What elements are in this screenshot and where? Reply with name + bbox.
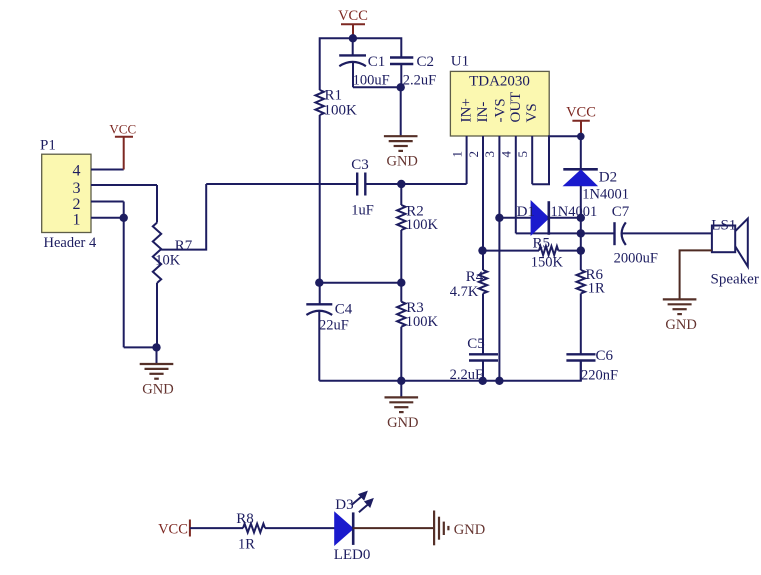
power VCC at U1 <box>580 121 582 137</box>
svg-text:D3: D3 <box>335 497 353 513</box>
resistor R8 1R <box>243 524 265 533</box>
svg-text:C7: C7 <box>612 204 630 220</box>
svg-text:2: 2 <box>466 151 481 158</box>
speaker LS1 <box>712 226 735 253</box>
LED D3 LED0 <box>335 512 354 545</box>
svg-text:P1: P1 <box>40 138 56 154</box>
svg-text:LS1: LS1 <box>711 218 736 234</box>
wire: VCC to R8 <box>190 527 243 529</box>
svg-text:Header 4: Header 4 <box>44 235 97 251</box>
power VCC at P1 <box>123 137 125 170</box>
svg-text:150K: 150K <box>531 255 564 271</box>
svg-text:22uF: 22uF <box>319 318 349 334</box>
LED arrows <box>352 492 372 512</box>
svg-text:GND: GND <box>454 522 485 538</box>
svg-text:GND: GND <box>386 154 417 170</box>
svg-text:4: 4 <box>73 162 81 179</box>
svg-text:10K: 10K <box>155 253 181 269</box>
resistor R3 100K <box>397 302 405 327</box>
svg-text:IN+: IN+ <box>459 98 475 122</box>
wire: R1 bottom to C4 <box>319 115 321 304</box>
capacitor C1 100uF polarized <box>352 38 354 55</box>
svg-text:GND: GND <box>142 382 173 398</box>
node: D1 cathode / OUT column <box>577 214 585 222</box>
resistor R6 1R <box>580 251 582 270</box>
svg-text:VCC: VCC <box>158 522 188 538</box>
node: C2 bottom junction <box>397 83 405 91</box>
svg-text:GND: GND <box>665 317 696 333</box>
U1 pin 4 <box>515 136 517 233</box>
svg-text:R1: R1 <box>325 88 343 104</box>
svg-text:U1: U1 <box>451 54 469 70</box>
wire: C1/C2 bottom link <box>353 86 401 88</box>
node: VCC rail junction <box>349 34 357 42</box>
wire: C7 branch <box>581 232 615 234</box>
wire: bottom rail <box>319 361 581 381</box>
wire: R7 tap to signal <box>161 184 206 250</box>
wire: pin5 VS routing <box>532 136 581 184</box>
svg-text:D1: D1 <box>517 204 535 220</box>
ground (rotated) at LED row <box>433 511 435 546</box>
node: pin2/R4/R5 junction <box>478 246 486 254</box>
svg-text:100K: 100K <box>324 103 358 119</box>
capacitor C5 2.2uF <box>469 353 498 355</box>
diode D1 1N4001 <box>531 201 549 235</box>
svg-text:VCC: VCC <box>566 105 596 121</box>
wire: pin4 OUT to node <box>516 232 581 234</box>
svg-text:1R: 1R <box>588 280 605 296</box>
U1 pin 3 <box>498 136 500 381</box>
wire: main signal rail <box>206 183 357 185</box>
node: OUT junction <box>577 229 585 237</box>
svg-text:VCC: VCC <box>109 122 136 137</box>
node: D1 anode tap on pin3 <box>495 214 503 222</box>
svg-text:4: 4 <box>499 151 514 158</box>
node: rail pin3 <box>495 377 503 385</box>
ground <box>140 363 174 365</box>
resistor R2 100K <box>400 184 402 205</box>
node: rail GND <box>397 377 405 385</box>
wire: VCC node down to D2 <box>580 136 582 169</box>
svg-text:1uF: 1uF <box>351 203 374 219</box>
svg-text:IN-: IN- <box>475 102 491 123</box>
wire: R4 to C5 <box>482 294 484 355</box>
svg-text:1R: 1R <box>238 536 255 552</box>
resistor R7 10K <box>156 185 158 223</box>
svg-text:4.7K: 4.7K <box>450 284 479 300</box>
svg-text:1: 1 <box>449 151 464 158</box>
capacitor C7 2000uF polarized <box>613 222 615 245</box>
svg-text:R8: R8 <box>236 511 254 527</box>
wire: mid link <box>319 282 401 284</box>
svg-text:LED0: LED0 <box>334 547 371 563</box>
svg-text:3: 3 <box>482 151 497 158</box>
svg-text:VCC: VCC <box>338 8 368 24</box>
svg-text:100K: 100K <box>406 314 439 330</box>
ground <box>663 298 697 300</box>
svg-text:-VS: -VS <box>492 98 508 122</box>
node: VS/VCC junction <box>577 133 585 141</box>
svg-text:R5: R5 <box>533 236 551 252</box>
resistor R1 <box>316 90 324 115</box>
svg-text:C1: C1 <box>368 54 386 70</box>
svg-text:2: 2 <box>73 196 81 213</box>
svg-text:Speaker: Speaker <box>711 272 759 288</box>
svg-text:1N4001: 1N4001 <box>551 204 598 220</box>
node: R5/R6 junction <box>577 246 585 254</box>
connector P1 Header 4 <box>42 154 91 232</box>
svg-text:R4: R4 <box>466 269 484 285</box>
svg-text:220nF: 220nF <box>581 367 618 383</box>
svg-text:100uF: 100uF <box>353 73 390 89</box>
svg-text:C6: C6 <box>596 348 614 364</box>
wire: VCC stem top middle <box>352 24 354 38</box>
ground <box>384 135 418 137</box>
svg-text:D2: D2 <box>599 169 617 185</box>
capacitor C4 22uF polarized <box>306 303 332 305</box>
svg-text:C5: C5 <box>467 336 485 352</box>
wire: pin2 down <box>123 202 125 348</box>
wire: speaker to GND <box>680 250 712 299</box>
svg-text:1N4001: 1N4001 <box>582 187 629 203</box>
component U1 TDA2030 body <box>450 71 549 136</box>
svg-text:5: 5 <box>515 151 530 158</box>
diode D2 1N4001 <box>563 168 598 171</box>
U1 pin 2 <box>482 136 484 251</box>
resistor R5 150K <box>539 246 558 255</box>
wire: GND stem mid <box>400 381 402 397</box>
wire: R3 to rail <box>400 327 402 381</box>
wire: junction to GND <box>400 87 402 136</box>
U1 pin 5 <box>531 136 533 184</box>
svg-text:TDA2030: TDA2030 <box>469 73 530 89</box>
wire: R2 to mid node <box>400 230 402 302</box>
svg-text:C4: C4 <box>335 301 353 317</box>
svg-text:2.2uF: 2.2uF <box>403 73 436 89</box>
U1 pin 1 <box>466 136 468 184</box>
resistor R4 4.7K <box>482 251 484 270</box>
capacitor C3 1uF <box>356 173 358 196</box>
svg-text:VS: VS <box>524 103 540 122</box>
svg-text:3: 3 <box>73 180 81 197</box>
wire: R6 to C6 <box>580 294 582 355</box>
node: R2/R3 mid <box>397 279 405 287</box>
svg-text:C2: C2 <box>417 54 435 70</box>
svg-text:OUT: OUT <box>508 92 524 123</box>
svg-text:100K: 100K <box>406 217 439 233</box>
node: rail C5 <box>479 377 487 385</box>
ground <box>385 396 419 398</box>
svg-text:GND: GND <box>387 415 418 431</box>
wire: to D1 <box>499 217 531 219</box>
capacitor C6 220nF <box>566 353 595 355</box>
wire: R8 to LED <box>265 527 335 529</box>
svg-text:1: 1 <box>73 212 81 229</box>
capacitor C2 2.2uF <box>390 56 413 58</box>
wire: top rail <box>320 38 402 90</box>
node: C4 top <box>315 279 323 287</box>
node: signal/R2 junction <box>397 180 405 188</box>
wire: LED to GND <box>353 527 434 529</box>
wire: IN- node to R5 <box>483 250 540 252</box>
wire: to GND corner <box>124 346 157 348</box>
node: R7 bottom / GND <box>152 343 160 351</box>
svg-text:C3: C3 <box>351 157 369 173</box>
node: pin1/pin2 join <box>120 214 128 222</box>
svg-text:2000uF: 2000uF <box>614 251 658 267</box>
